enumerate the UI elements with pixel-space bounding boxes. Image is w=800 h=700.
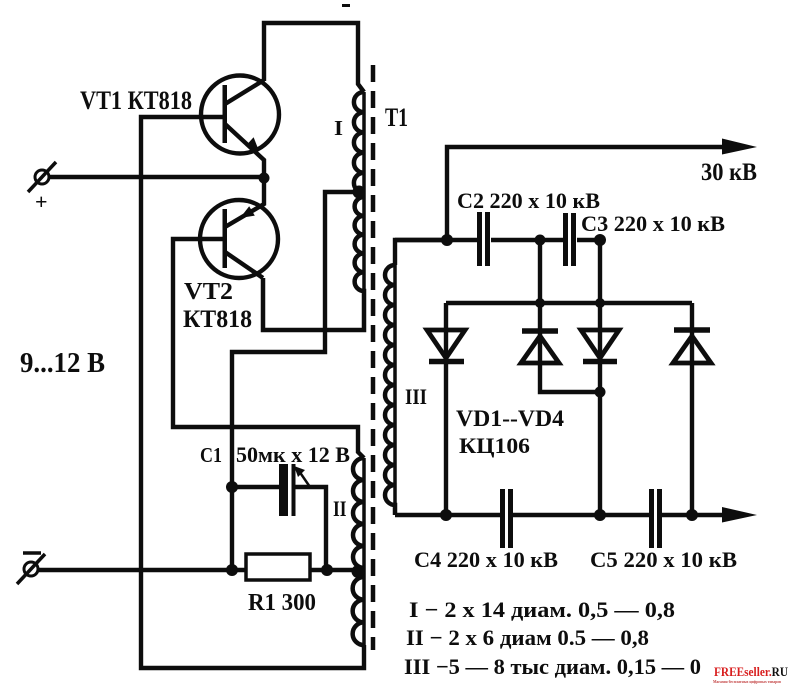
svg-text:III −5 — 8 тыс диам. 0,15 — 0: III −5 — 8 тыс диам. 0,15 — 0 [404, 654, 701, 679]
svg-text:С3 220 х 10 кВ: С3 220 х 10 кВ [581, 211, 725, 236]
svg-text:II: II [333, 496, 347, 521]
svg-text:С5 220 х 10 кВ: С5 220 х 10 кВ [590, 547, 737, 572]
svg-text:R1 300: R1 300 [248, 590, 316, 616]
svg-text:VT1 КТ818: VT1 КТ818 [80, 86, 192, 115]
svg-text:III: III [405, 384, 427, 409]
svg-text:С2 220 х 10 кВ: С2 220 х 10 кВ [457, 188, 600, 213]
svg-text:50мк х 12 В: 50мк х 12 В [236, 442, 350, 467]
svg-text:КЦ106: КЦ106 [459, 433, 530, 458]
svg-text:FREEseller.RU: FREEseller.RU [714, 664, 789, 679]
svg-text:VT2: VT2 [184, 279, 233, 305]
svg-text:С4 220 х 10 кВ: С4 220 х 10 кВ [414, 547, 558, 572]
svg-text:30 кВ: 30 кВ [701, 159, 757, 186]
svg-text:II − 2 х 6 диам 0.5 — 0,8: II − 2 х 6 диам 0.5 — 0,8 [406, 625, 649, 650]
svg-text:Магазин бесплатных цифровых то: Магазин бесплатных цифровых товаров [713, 679, 781, 684]
svg-text:I: I [334, 116, 343, 140]
svg-text:VD1--VD4: VD1--VD4 [456, 406, 565, 431]
svg-text:Т1: Т1 [385, 103, 408, 132]
svg-text:С1: С1 [200, 443, 222, 467]
svg-text:КТ818: КТ818 [183, 306, 252, 333]
svg-text:+: + [35, 189, 48, 214]
svg-text:I − 2 х 14 диам. 0,5 — 0,8: I − 2 х 14 диам. 0,5 — 0,8 [409, 597, 675, 622]
svg-text:9...12 В: 9...12 В [20, 348, 105, 379]
